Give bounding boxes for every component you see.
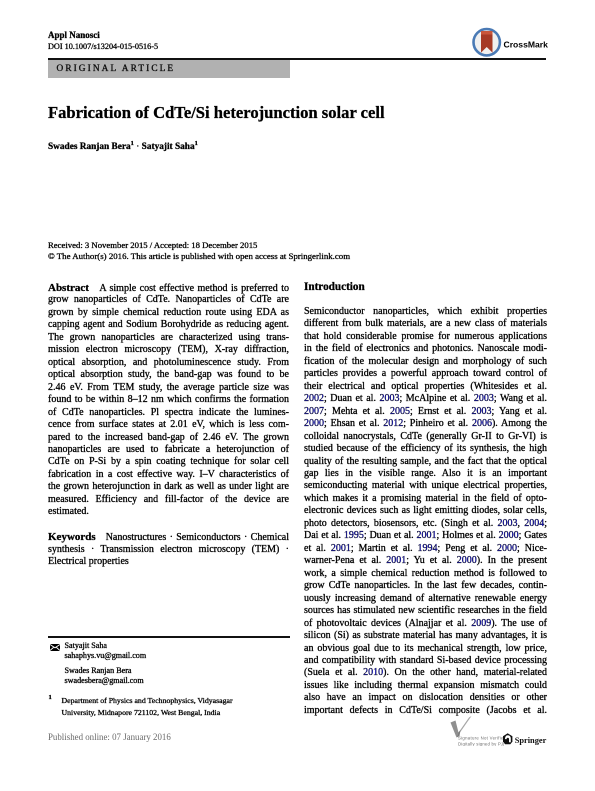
svg-text:Signature Not Verified: Signature Not Verified bbox=[458, 736, 504, 741]
svg-text:Springer: Springer bbox=[515, 736, 547, 745]
svg-text:CrossMark: CrossMark bbox=[504, 40, 549, 50]
svg-text:Digitally signed by PJj: Digitally signed by PJj bbox=[458, 741, 504, 746]
